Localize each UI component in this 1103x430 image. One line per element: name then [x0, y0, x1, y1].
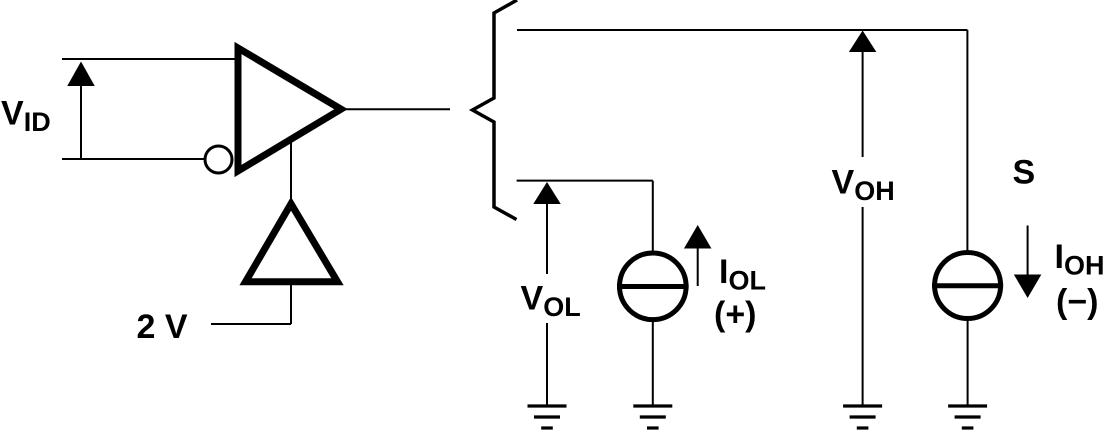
svg-text:(+): (+)	[714, 296, 757, 334]
svg-text:(−): (−)	[1056, 283, 1099, 321]
svg-text:S: S	[1013, 154, 1036, 192]
svg-text:2 V: 2 V	[137, 308, 188, 346]
